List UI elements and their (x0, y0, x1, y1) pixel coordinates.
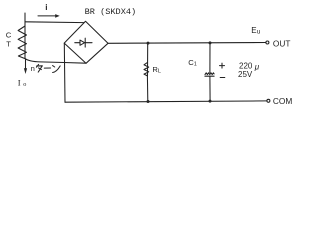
plus sign of C1 polarity (220, 63, 225, 68)
wire RL branch lower (146, 76, 148, 102)
junction dot top rail / RL (147, 42, 150, 45)
junction dot top rail / C1 (209, 41, 212, 44)
katakana ン (53, 66, 61, 73)
CT secondary winding (n turns zigzag) (18, 26, 26, 59)
junction dot bottom rail / C1 (209, 100, 212, 103)
svg-text:COM: COM (273, 96, 292, 106)
diode inside bridge (75, 42, 80, 44)
katakana ー (44, 67, 50, 69)
svg-text:L: L (158, 69, 161, 75)
wire C1 branch lower (209, 76, 211, 101)
resistor RL zigzag (144, 62, 149, 76)
bridge rectifier BR body (diamond) (64, 21, 108, 63)
junction dot bottom rail / RL (147, 100, 150, 103)
capacitor C1 top plate (sawtooth) (205, 73, 214, 75)
CT top stub wire (24, 13, 26, 59)
wire C1 branch upper (209, 43, 211, 73)
wire winding bottom to bridge AC node (25, 59, 86, 64)
svg-text:OUT: OUT (273, 38, 291, 48)
svg-text:T: T (6, 39, 11, 48)
wire top horizontal to bridge (25, 21, 84, 24)
svg-text:1: 1 (194, 62, 197, 68)
arrow Io (current direction) (25, 59, 27, 69)
svg-text:o: o (23, 81, 26, 88)
wire bridge minus down (63, 43, 66, 102)
wire top rail (OUT) (108, 42, 266, 45)
svg-text:i: i (45, 3, 47, 12)
capacitor C1 bottom plate (205, 75, 214, 77)
svg-text:n: n (31, 64, 35, 73)
svg-text:u: u (257, 28, 261, 35)
svg-text:E: E (251, 26, 256, 35)
arrow i (current direction) (38, 15, 56, 17)
minus sign of C1 polarity (220, 77, 225, 79)
svg-text:BR (SKDX4): BR (SKDX4) (85, 7, 137, 17)
svg-text:25V: 25V (238, 70, 253, 79)
wire bottom rail (COM) (65, 101, 267, 102)
COM terminal circle (267, 99, 270, 102)
OUT terminal circle (266, 41, 269, 44)
wire RL branch upper (147, 43, 149, 76)
svg-text:μ: μ (254, 62, 260, 71)
katakana label "ターン" (turns) drawn strokes: タ (36, 64, 42, 72)
svg-text:I: I (18, 78, 21, 88)
